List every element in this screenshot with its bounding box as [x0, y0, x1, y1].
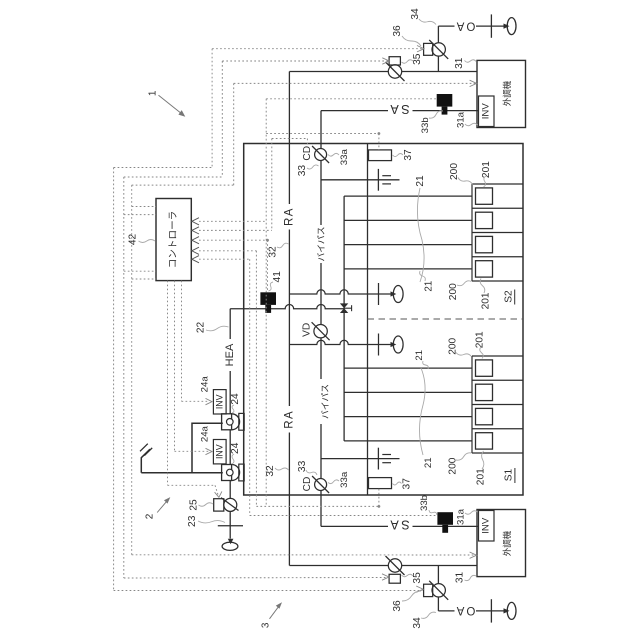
svg-text:201: 201: [481, 292, 492, 309]
svg-text:31a: 31a: [456, 111, 467, 128]
svg-text:INV: INV: [481, 103, 492, 120]
svg-text:32: 32: [268, 246, 279, 258]
svg-text:35: 35: [412, 572, 423, 584]
svg-text:34: 34: [410, 8, 421, 20]
svg-text:37: 37: [403, 149, 414, 161]
svg-text:33: 33: [297, 165, 308, 177]
svg-text:41: 41: [272, 271, 283, 283]
svg-text:INV: INV: [215, 394, 225, 409]
svg-text:33a: 33a: [339, 471, 350, 488]
svg-text:バイパス: バイパス: [320, 384, 330, 419]
svg-text:36: 36: [392, 25, 403, 37]
svg-text:34: 34: [412, 617, 423, 629]
svg-text:21: 21: [414, 350, 425, 361]
svg-text:RA: RA: [284, 410, 296, 429]
svg-text:31: 31: [455, 572, 466, 584]
svg-text:31: 31: [454, 57, 465, 69]
svg-text:外調機: 外調機: [502, 80, 512, 106]
svg-text:201: 201: [475, 468, 486, 485]
svg-text:VD: VD: [301, 323, 312, 337]
svg-text:23: 23: [187, 515, 198, 527]
svg-text:S1: S1: [503, 468, 514, 481]
svg-text:31a: 31a: [456, 508, 467, 525]
svg-text:200: 200: [447, 337, 458, 354]
svg-text:OA: OA: [455, 604, 476, 616]
svg-text:42: 42: [128, 234, 139, 246]
svg-text:バイパス: バイパス: [316, 226, 326, 261]
svg-text:24a: 24a: [200, 376, 211, 393]
svg-text:SA: SA: [388, 102, 410, 116]
svg-text:21: 21: [415, 175, 426, 187]
svg-text:INV: INV: [481, 517, 492, 534]
svg-text:OA: OA: [455, 19, 476, 31]
svg-text:35: 35: [412, 53, 423, 65]
svg-text:33b: 33b: [420, 117, 431, 133]
svg-text:22: 22: [196, 322, 207, 334]
svg-text:CD: CD: [302, 146, 313, 161]
svg-text:HEA: HEA: [224, 343, 236, 366]
svg-text:1: 1: [148, 90, 159, 96]
svg-text:24: 24: [230, 393, 241, 405]
svg-text:201: 201: [481, 161, 492, 178]
svg-text:25: 25: [188, 499, 199, 511]
svg-text:21: 21: [423, 457, 434, 468]
svg-text:SA: SA: [388, 518, 410, 532]
svg-text:33a: 33a: [339, 149, 350, 166]
svg-text:33b: 33b: [419, 495, 430, 511]
svg-text:CD: CD: [302, 477, 313, 492]
svg-text:201: 201: [475, 331, 486, 348]
svg-text:21: 21: [423, 281, 434, 292]
svg-text:INV: INV: [215, 444, 225, 459]
svg-text:コントローラ: コントローラ: [168, 211, 179, 269]
svg-text:24a: 24a: [200, 425, 211, 442]
svg-text:RA: RA: [284, 207, 296, 226]
svg-text:2: 2: [145, 513, 156, 519]
svg-text:3: 3: [261, 622, 272, 628]
svg-text:37: 37: [401, 478, 412, 490]
svg-text:S2: S2: [504, 290, 515, 303]
svg-text:32: 32: [265, 465, 276, 477]
svg-text:外調機: 外調機: [502, 530, 512, 556]
svg-text:36: 36: [392, 600, 403, 612]
svg-text:24: 24: [230, 442, 241, 454]
